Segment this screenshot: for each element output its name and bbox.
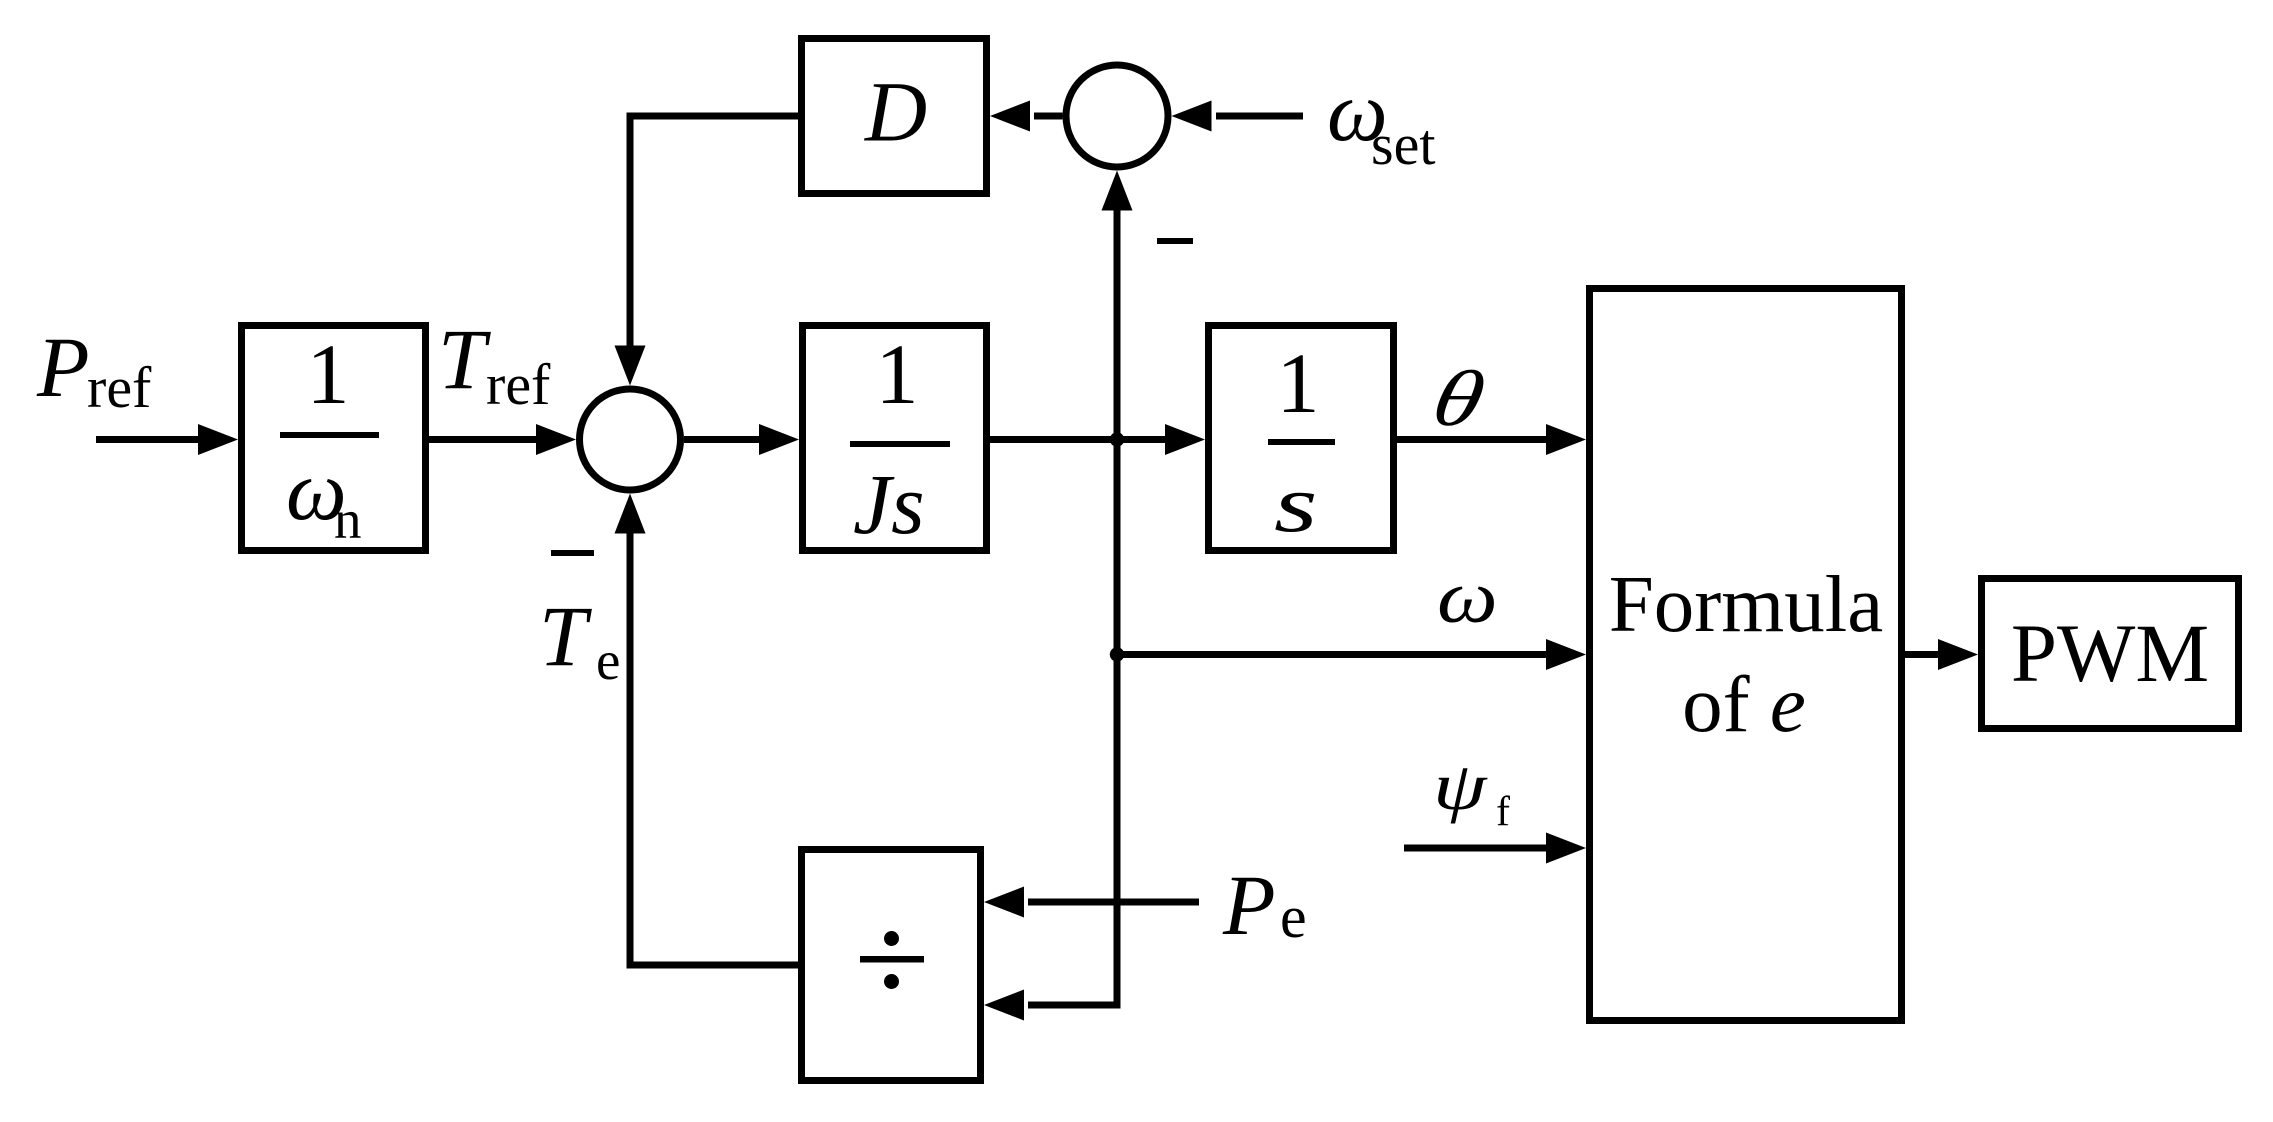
label omega [1437, 555, 1498, 639]
svg-text:e: e [596, 630, 620, 691]
summing junction S2 [1066, 65, 1168, 167]
block 1/wn [242, 326, 426, 551]
wire theta [1397, 436, 1550, 443]
arrowhead omega set into S2 [1172, 101, 1212, 132]
wire psi f [1404, 845, 1550, 852]
svg-text:s: s [1274, 459, 1318, 549]
svg-text:T: T [438, 311, 491, 407]
wire omega set [1216, 113, 1303, 120]
arrowhead omega into Formula [1546, 639, 1586, 670]
arrowhead theta into Formula [1546, 424, 1586, 455]
svg-text:PWM: PWM [2011, 607, 2209, 699]
svg-text:P: P [36, 319, 90, 415]
svg-text:1: 1 [876, 326, 919, 422]
arrowhead into 1/wn [198, 424, 238, 455]
arrowhead into 1/s [1165, 424, 1205, 455]
svg-text:ref: ref [87, 355, 152, 420]
svg-text:n: n [334, 489, 362, 550]
node junction dot A [1110, 432, 1124, 446]
arrowhead into D [990, 101, 1030, 132]
arrowhead Pe into divider [984, 887, 1024, 918]
arrowhead into 1/Js [759, 424, 799, 455]
label theta [1425, 355, 1492, 442]
block D [802, 39, 987, 194]
svg-text:of e: of e [1682, 659, 1806, 749]
wire Formula to PWM [1905, 651, 1942, 658]
wire omega [1117, 651, 1550, 658]
wire S2 to D [1034, 113, 1063, 120]
wire 1/Js to 1/s [990, 436, 1169, 443]
arrowhead up into S2 bottom [1102, 171, 1133, 211]
wire Tref [429, 436, 540, 443]
svg-text:1: 1 [1277, 335, 1320, 431]
wire D feedback to S1 [630, 116, 798, 350]
divider block [802, 850, 981, 1081]
block 1/Js [803, 326, 987, 551]
node junction dot B [1110, 647, 1124, 661]
svg-text:ω: ω [1437, 555, 1498, 639]
block 1/s [1209, 326, 1394, 551]
svg-text:f: f [1496, 789, 1510, 835]
svg-text:ψ: ψ [1433, 749, 1488, 824]
wire Pref input [96, 436, 202, 443]
block PWM [1982, 579, 2239, 729]
label psi f [1433, 749, 1488, 824]
label minus at S2 [1157, 238, 1193, 244]
divider symbol [860, 956, 924, 963]
block Formula of e [1590, 289, 1902, 1021]
wire main vertical [1028, 206, 1117, 1005]
arrowhead psi f into Formula [1546, 833, 1586, 864]
svg-text:ref: ref [486, 352, 551, 417]
wire Te feedback [630, 533, 798, 965]
label minus at S1 [551, 550, 594, 556]
wire Pe [1028, 899, 1199, 906]
svg-text:Formula: Formula [1609, 559, 1883, 649]
svg-text:set: set [1371, 112, 1435, 177]
summing junction S1 [580, 389, 681, 490]
svg-text:D: D [864, 64, 927, 160]
svg-text:P: P [1222, 857, 1276, 953]
arrowhead into PWM [1938, 639, 1978, 670]
svg-text:e: e [1280, 884, 1307, 950]
wire S1 to 1/Js [684, 436, 763, 443]
arrowhead D feedback into S1 top [615, 346, 646, 386]
arrowhead into S1 left [536, 424, 576, 455]
svg-text:Js: Js [853, 456, 925, 552]
arrowhead into divider lower input [984, 990, 1024, 1021]
arrowhead Te into S1 bottom [615, 494, 646, 534]
svg-text:T: T [539, 588, 592, 684]
svg-text:1: 1 [307, 326, 350, 422]
